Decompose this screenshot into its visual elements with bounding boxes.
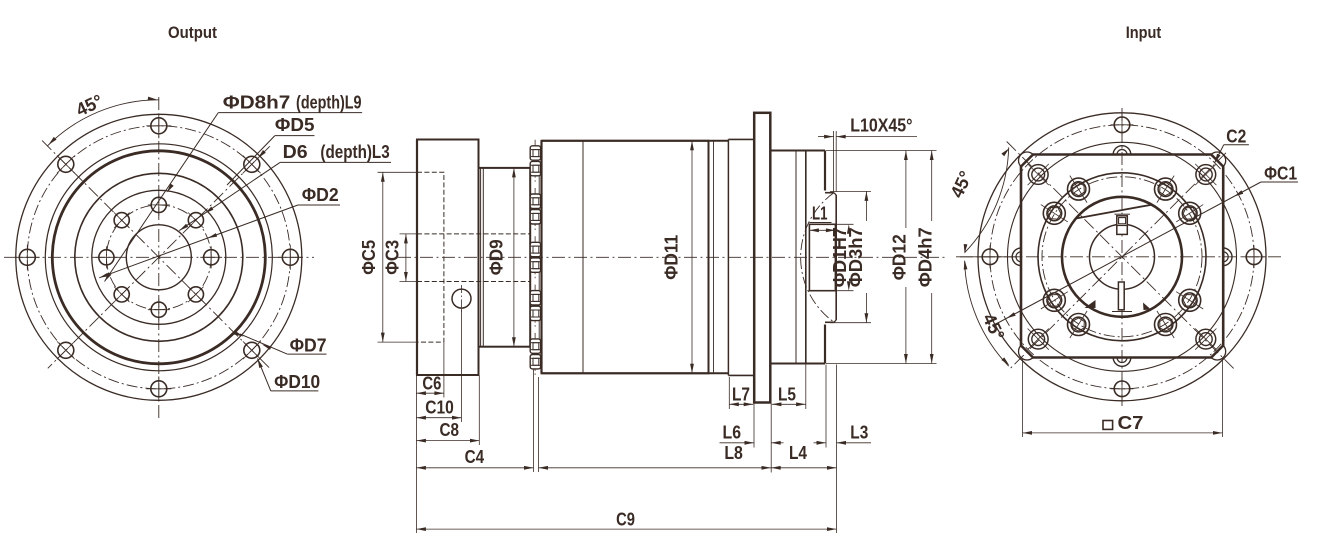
corner dome bottom-left: [1019, 346, 1033, 360]
left view circle D9: [75, 173, 243, 341]
assembly screw head pair 4: [534, 285, 536, 327]
input shaft clamp bore: [809, 224, 835, 290]
svg-text:ΦD10: ΦD10: [274, 371, 320, 392]
right view diagonal centerline 135deg: [1010, 153, 1226, 369]
left view inner bolt hole 5: [99, 250, 114, 265]
left view 45deg dimension arc: [47, 100, 158, 146]
extension lines D12/D4h7: [826, 150, 937, 152]
flange side hole: [452, 289, 471, 308]
svg-text:ΦC3: ΦC3: [381, 240, 402, 275]
svg-text:L4: L4: [789, 442, 808, 463]
left view thick body circle: [52, 151, 265, 364]
D9 cylinder: [479, 168, 531, 347]
left view inner bolt hole 8: [188, 213, 203, 228]
dimension PhiD9: [513, 168, 515, 347]
left view bore circle: [126, 225, 191, 290]
left view outer bolt hole 2: [244, 342, 260, 358]
svg-text:ΦD3h7: ΦD3h7: [845, 227, 866, 287]
right view clamp hub circle thick: [1062, 197, 1182, 317]
right view mounting hole 270deg: [1114, 117, 1130, 133]
socket head screw 6: [1068, 178, 1090, 200]
left view inner bolt hole 3: [151, 302, 166, 317]
chamfer extension lines L10: [833, 131, 835, 192]
dimension PhiD1H7: [837, 223, 854, 225]
gearbox body outline: [542, 141, 709, 373]
socket head screw 8: [1179, 202, 1201, 224]
dimension PhiC5: [378, 171, 417, 173]
right view screw circle (dash-dot): [1042, 177, 1202, 337]
corner dome top-right: [1211, 152, 1225, 166]
svg-text:L3: L3: [850, 422, 868, 443]
dimension PhiD12: [905, 151, 907, 229]
clamp slit: [1118, 282, 1124, 310]
right view diagonal centerline 45deg: [1007, 142, 1234, 369]
left view inner bolt hole 7: [151, 197, 166, 212]
right view mounting hole 90deg: [1114, 381, 1130, 397]
assembly screw head pair 1: [534, 140, 536, 182]
left view outer bolt hole 5: [19, 249, 35, 265]
dimension PhiC3: [400, 233, 418, 235]
body joint line: [582, 141, 584, 373]
edge dome right: [1223, 248, 1232, 266]
assembly screw head pair 5: [534, 333, 536, 375]
left view inner bolt circle (dash-dot): [106, 205, 211, 310]
left view inner bolt hole 6: [114, 213, 129, 228]
left view inner bolt hole 1: [204, 250, 219, 265]
svg-text:ΦC5: ΦC5: [358, 240, 379, 275]
output flange outline: [417, 140, 479, 376]
hidden bore C3 (dashed): [417, 233, 531, 235]
right view circle inside square: [1008, 142, 1237, 371]
left view vertical centerline: [158, 97, 160, 418]
D12 face: [824, 151, 826, 191]
left view diagonal centerline 135deg: [48, 146, 270, 368]
left view circle D2: [92, 190, 226, 324]
svg-text:L1: L1: [812, 203, 828, 224]
svg-text:C2: C2: [1226, 126, 1246, 147]
45deg arcs horizontal extension line: [956, 256, 1021, 258]
middle view horizontal centerline: [398, 256, 948, 258]
left view horizontal centerline: [4, 256, 314, 258]
body end ring: [713, 141, 715, 373]
svg-text:L5: L5: [778, 384, 796, 405]
left view outer bolt hole 1: [282, 249, 298, 265]
clamp ear left: [1085, 300, 1096, 308]
svg-text:C10: C10: [425, 396, 454, 417]
left view outer bolt hole 6: [58, 156, 74, 172]
svg-text:Output: Output: [168, 24, 217, 42]
right view outer circle: [978, 113, 1266, 401]
input bore circle: [1090, 224, 1155, 289]
svg-text:(depth)L9: (depth)L9: [296, 91, 362, 112]
svg-text:ΦD12: ΦD12: [888, 234, 909, 280]
svg-text:Input: Input: [1126, 24, 1162, 42]
svg-text:L8: L8: [724, 442, 743, 463]
socket head screw 1: [1179, 289, 1201, 311]
socket head screw 5: [1043, 202, 1065, 224]
left view diagonal centerline 45deg: [42, 141, 270, 369]
dimension PhiD3h7: [830, 190, 871, 192]
svg-text:C4: C4: [465, 446, 485, 467]
right view horizontal centerline: [960, 256, 1284, 258]
svg-text:ΦD5: ΦD5: [275, 114, 315, 135]
dimension PhiD4h7: [931, 151, 933, 222]
keyway: [1115, 213, 1131, 215]
svg-text:D6: D6: [283, 141, 308, 162]
svg-text:L7: L7: [732, 384, 750, 405]
left view outer bolt hole 3: [151, 381, 167, 397]
input pilot boss D3h7: [825, 192, 834, 194]
svg-text:ΦD2: ΦD2: [302, 184, 339, 205]
svg-text:C7: C7: [1118, 412, 1144, 433]
right view mounting hole 0deg: [1246, 249, 1262, 265]
assembly screw head pair 3: [534, 236, 536, 278]
right view boss circle: [1038, 173, 1206, 341]
left view outer bolt hole 7: [151, 118, 167, 134]
corner dome bottom-right: [1211, 346, 1225, 360]
socket head screw 3: [1068, 314, 1090, 336]
svg-text:ΦD8h7: ΦD8h7: [223, 91, 291, 112]
left view outer bolt hole 4: [58, 342, 74, 358]
clamp ear right: [1143, 303, 1151, 311]
right view bolt circle (dash-dot): [990, 125, 1254, 389]
right view 45deg arc upper: [965, 147, 1009, 252]
svg-text:L6: L6: [723, 422, 742, 443]
svg-text:ΦD11: ΦD11: [661, 235, 682, 280]
right view vertical centerline: [1121, 108, 1123, 406]
svg-text:C8: C8: [440, 419, 460, 440]
right view mounting hole 180deg: [982, 249, 998, 265]
svg-text:ΦD9: ΦD9: [486, 239, 507, 275]
svg-text:(depth)L3: (depth)L3: [320, 141, 389, 162]
corner bolt: [1196, 329, 1216, 349]
left view outer bolt circle (dash-dot): [27, 126, 290, 389]
motor boss phantom arc: [801, 193, 834, 322]
rear housing section: [770, 150, 825, 152]
svg-text:C6: C6: [422, 373, 441, 394]
socket head screw 7: [1155, 178, 1177, 200]
clamp hub flat chord: [1076, 205, 1152, 219]
dimension C7: [1022, 359, 1024, 438]
svg-text:L10X45°: L10X45°: [850, 115, 912, 136]
corner dome top-left: [1019, 152, 1033, 166]
edge dome top: [1113, 146, 1131, 155]
input mounting flange plate: [754, 113, 770, 403]
svg-text:ΦC1: ΦC1: [1264, 163, 1297, 184]
left view flange step circle: [45, 144, 272, 371]
assembly screw head pair 2: [534, 188, 536, 230]
edge dome bottom: [1113, 358, 1131, 367]
socket head screw 2: [1155, 314, 1177, 336]
corner bolt: [1028, 165, 1048, 185]
neck collar section: [728, 138, 754, 140]
left view inner bolt hole 4: [114, 287, 129, 302]
svg-text:C9: C9: [616, 509, 635, 530]
svg-text:ΦD4h7: ΦD4h7: [915, 227, 936, 287]
corner bolt: [1196, 165, 1216, 185]
hidden bore C5 (dashed): [417, 172, 444, 342]
square flange with chamfered corners: [1021, 155, 1223, 358]
svg-text:ΦD7: ΦD7: [290, 335, 327, 356]
left view outer bolt hole 8: [244, 156, 260, 172]
socket head screw 4: [1043, 289, 1065, 311]
right view 45deg arc lower: [965, 261, 1009, 366]
corner bolt: [1028, 329, 1048, 349]
left view inner bolt hole 2: [188, 287, 203, 302]
edge dome left: [1012, 248, 1021, 266]
dimension PhiD11: [691, 141, 693, 373]
left view outer flange circle: [16, 114, 302, 400]
extension lines bottom: [415, 376, 417, 534]
